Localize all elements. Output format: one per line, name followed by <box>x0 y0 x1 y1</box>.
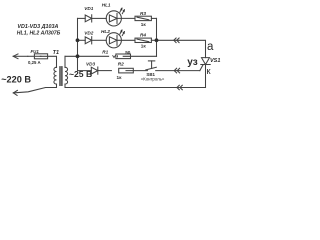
svg-text:VD1: VD1 <box>84 6 94 11</box>
svg-text:уз: уз <box>187 57 197 68</box>
svg-text:0,25 А: 0,25 А <box>28 60 41 65</box>
svg-text:R3: R3 <box>140 11 146 16</box>
svg-text:~25 В: ~25 В <box>69 69 92 79</box>
svg-text:HL1, HL2 АЛ307Б: HL1, HL2 АЛ307Б <box>17 31 61 37</box>
svg-text:VS1: VS1 <box>210 58 220 64</box>
svg-text:VD2: VD2 <box>84 30 94 35</box>
svg-text:R1: R1 <box>102 49 108 54</box>
svg-text:VD3: VD3 <box>86 62 96 67</box>
svg-text:1к: 1к <box>141 43 147 48</box>
svg-text:~220 В: ~220 В <box>1 75 31 85</box>
svg-text:1к: 1к <box>141 22 147 27</box>
svg-text:T1: T1 <box>53 50 59 56</box>
svg-text:50: 50 <box>125 50 131 55</box>
svg-text:а: а <box>207 41 214 53</box>
svg-text:R4: R4 <box>140 33 146 38</box>
svg-text:к: к <box>206 66 211 77</box>
svg-text:1к: 1к <box>117 75 123 80</box>
svg-text:HL2: HL2 <box>101 29 110 34</box>
svg-text:FU1: FU1 <box>31 49 40 54</box>
svg-text:VD1-VD3 Д103А: VD1-VD3 Д103А <box>17 24 58 30</box>
svg-text:R2: R2 <box>118 62 124 67</box>
svg-text:«Контроль»: «Контроль» <box>141 76 165 81</box>
svg-text:HL1: HL1 <box>102 3 111 8</box>
